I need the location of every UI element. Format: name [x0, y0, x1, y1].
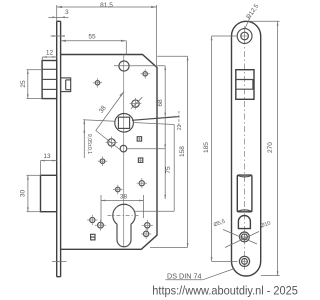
svg-text:158: 158 [179, 146, 186, 157]
big top hole [119, 61, 129, 71]
svg-text:12: 12 [46, 50, 54, 57]
dimension 158 [150, 56, 189, 247]
dimension 12 latch [42, 50, 56, 61]
svg-text:75: 75 [165, 166, 172, 174]
lock case outline [61, 55, 157, 250]
dimension 30 deadbolt height [20, 175, 41, 211]
small circle hole C [120, 145, 127, 152]
svg-text:68: 68 [157, 99, 164, 107]
diagonal dimension 38 follower [96, 92, 124, 151]
svg-text:3: 3 [65, 9, 69, 16]
right view faceplate outline [232, 21, 261, 276]
svg-text:13: 13 [43, 153, 51, 160]
faceplate side view [57, 21, 61, 276]
bottom screw centre tick [52, 261, 67, 263]
svg-text:81,5: 81,5 [100, 2, 113, 9]
svg-text:270: 270 [267, 142, 274, 153]
svg-text:https://www.aboutdiy.nl - 2025: https://www.aboutdiy.nl - 2025 [152, 283, 298, 297]
square hole 1 [137, 137, 141, 141]
dimension 38 euro hole [101, 194, 144, 229]
mid screw hole with leaders [213, 219, 272, 248]
small circle hole B [106, 137, 118, 149]
dimension 55 backset [61, 33, 127, 54]
cross screw holes [87, 69, 153, 239]
latch cutout right view [236, 70, 254, 100]
dimension 81,5 top [57, 2, 157, 67]
dimension 68 and 75 line [114, 66, 172, 199]
right view centreline [244, 26, 246, 272]
euro cylinder hole [113, 204, 135, 247]
deadbolt [41, 175, 57, 211]
dimension 25 latch height [20, 70, 42, 99]
svg-text:38: 38 [120, 194, 128, 201]
svg-text:9,05±0,1: 9,05±0,1 [86, 134, 92, 154]
deadbolt cutout right view [237, 175, 252, 212]
dimension 3 faceplate [49, 9, 69, 18]
dimension 22 and follower leaders [132, 111, 183, 211]
svg-text:55: 55 [88, 33, 96, 40]
svg-text:25: 25 [20, 80, 27, 88]
follower U [115, 114, 134, 133]
small circle hole A [130, 98, 142, 110]
dimension 9,05 [83, 120, 115, 158]
bottom screw hole [239, 256, 249, 266]
square hole 2 [138, 158, 142, 162]
R12,5 label [245, 2, 261, 28]
top screw hole right view [237, 29, 252, 44]
svg-text:22: 22 [177, 124, 183, 130]
DS DIN 74 note [165, 269, 234, 281]
dimension 185 [203, 36, 238, 261]
dimension 13 deadbolt [40, 153, 56, 175]
dimension 270 [248, 21, 280, 275]
cylinder dome cutout [238, 216, 250, 229]
latch bolt [42, 61, 57, 99]
svg-text:30: 30 [20, 190, 27, 198]
vertical centreline left view [123, 55, 125, 248]
top screw centre tick [51, 35, 65, 37]
latch tail inside case [61, 78, 71, 92]
svg-text:185: 185 [203, 142, 210, 153]
diagonal tick through hole A [131, 97, 142, 108]
square hole 3 [91, 234, 95, 240]
